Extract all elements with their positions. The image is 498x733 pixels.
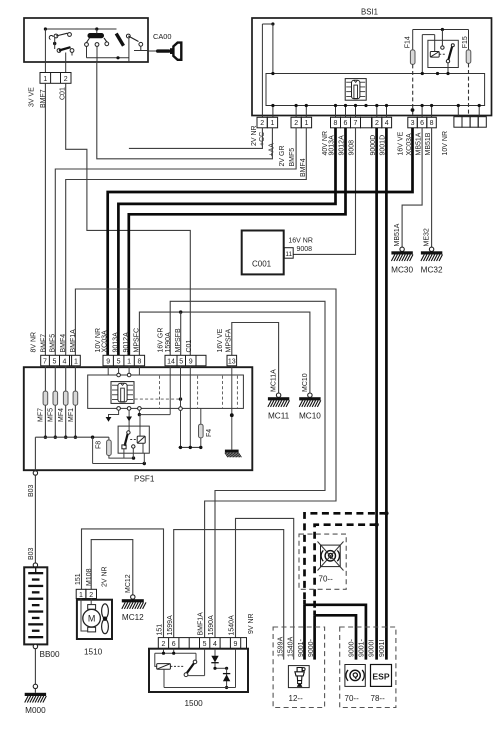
- svg-text:16V NR: 16V NR: [288, 238, 313, 245]
- svg-text:16V VE: 16V VE: [398, 131, 405, 155]
- svg-text:M000: M000: [25, 706, 46, 715]
- svg-text:151: 151: [75, 573, 82, 585]
- svg-text:9001-: 9001-: [298, 638, 305, 657]
- svg-text:1540A: 1540A: [229, 615, 236, 636]
- svg-text:MC12: MC12: [125, 574, 132, 593]
- svg-text:MF1: MF1: [68, 408, 75, 422]
- svg-text:16V GR: 16V GR: [158, 328, 165, 353]
- svg-text:BMF1A: BMF1A: [70, 329, 77, 353]
- svg-text:7: 7: [43, 359, 47, 366]
- svg-text:M: M: [88, 614, 96, 624]
- svg-text:BMF1A: BMF1A: [198, 612, 205, 636]
- svg-text:9001-: 9001-: [359, 638, 366, 657]
- svg-text:2: 2: [375, 120, 379, 127]
- svg-text:8: 8: [334, 120, 338, 127]
- svg-text:ME32: ME32: [424, 228, 431, 246]
- svg-text:F4: F4: [206, 429, 213, 437]
- svg-text:9000I: 9000I: [369, 639, 376, 657]
- svg-text:MC30: MC30: [391, 266, 413, 275]
- svg-text:1: 1: [43, 76, 47, 83]
- svg-text:F14: F14: [405, 36, 412, 48]
- svg-text:MC32: MC32: [421, 266, 443, 275]
- svg-text:4: 4: [385, 120, 389, 127]
- svg-text:1: 1: [304, 120, 308, 127]
- svg-text:151: 151: [157, 624, 164, 636]
- svg-text:16V VE: 16V VE: [217, 328, 224, 352]
- svg-text:BMF7: BMF7: [40, 334, 47, 353]
- svg-text:PSF1: PSF1: [134, 475, 155, 484]
- svg-text:MF7: MF7: [38, 408, 45, 422]
- svg-text:BMF5: BMF5: [50, 334, 57, 353]
- svg-text:1599A: 1599A: [278, 636, 285, 657]
- svg-text:MC10: MC10: [302, 373, 309, 392]
- svg-text:BMF5: BMF5: [289, 148, 296, 167]
- svg-text:BMF7: BMF7: [40, 89, 47, 108]
- svg-text:1590A: 1590A: [208, 615, 215, 636]
- svg-text:3V VE: 3V VE: [29, 87, 36, 107]
- svg-text:1540A: 1540A: [288, 636, 295, 657]
- svg-text:1500: 1500: [185, 699, 204, 708]
- svg-text:11: 11: [285, 251, 292, 258]
- svg-text:2: 2: [162, 641, 166, 648]
- svg-text:MPSFB: MPSFB: [175, 328, 182, 352]
- svg-text:MC12: MC12: [122, 613, 144, 622]
- svg-text:6: 6: [420, 120, 424, 127]
- svg-text:C01: C01: [186, 340, 193, 353]
- svg-text:2V NR: 2V NR: [251, 125, 258, 146]
- svg-text:1590A: 1590A: [165, 332, 172, 353]
- svg-text:8V NR: 8V NR: [31, 332, 38, 353]
- svg-text:9V NR: 9V NR: [248, 613, 255, 634]
- svg-text:5: 5: [52, 359, 56, 366]
- svg-text:12--: 12--: [289, 694, 304, 703]
- svg-text:6: 6: [172, 641, 176, 648]
- svg-text:M108: M108: [86, 568, 93, 586]
- svg-text:1599A: 1599A: [167, 615, 174, 636]
- svg-text:F15: F15: [462, 36, 469, 48]
- svg-text:7: 7: [354, 120, 358, 127]
- svg-text:2V NR: 2V NR: [102, 566, 109, 587]
- svg-text:10V NR: 10V NR: [442, 131, 449, 156]
- svg-text:2: 2: [89, 592, 93, 599]
- svg-text:14: 14: [167, 359, 175, 366]
- svg-text:5: 5: [117, 359, 121, 366]
- svg-text:MC11: MC11: [268, 412, 290, 421]
- svg-text:9012A: 9012A: [123, 332, 130, 353]
- svg-text:2: 2: [294, 120, 298, 127]
- svg-text:78--: 78--: [371, 694, 386, 703]
- svg-text:MF5: MF5: [48, 408, 55, 422]
- svg-text:9: 9: [189, 359, 193, 366]
- svg-text:5: 5: [179, 359, 183, 366]
- svg-text:4: 4: [63, 359, 67, 366]
- svg-text:9000-: 9000-: [348, 638, 355, 657]
- svg-text:2: 2: [64, 76, 68, 83]
- svg-text:70--: 70--: [319, 575, 334, 584]
- svg-text:1510: 1510: [84, 648, 103, 657]
- svg-text:MC10: MC10: [299, 412, 321, 421]
- svg-text:B03: B03: [28, 484, 35, 497]
- svg-text:CA00: CA00: [153, 32, 172, 41]
- svg-text:8: 8: [430, 120, 434, 127]
- svg-text:MPSFA: MPSFA: [226, 328, 233, 352]
- svg-text:C001: C001: [252, 260, 272, 269]
- svg-text:XC03A: XC03A: [102, 330, 109, 353]
- svg-text:F8: F8: [96, 441, 103, 449]
- svg-text:BB00: BB00: [40, 650, 60, 659]
- svg-text:70--: 70--: [345, 694, 360, 703]
- svg-text:MC11A: MC11A: [271, 369, 278, 392]
- svg-text:8: 8: [137, 359, 141, 366]
- svg-text:6: 6: [344, 120, 348, 127]
- svg-text:2V GR: 2V GR: [279, 145, 286, 166]
- svg-text:MB51B: MB51B: [425, 132, 432, 155]
- svg-text:3: 3: [411, 120, 415, 127]
- svg-text:BSI1: BSI1: [361, 8, 378, 17]
- svg-text:MPSFC: MPSFC: [134, 328, 141, 353]
- svg-text:9000-: 9000-: [308, 638, 315, 657]
- svg-text:B03: B03: [28, 547, 35, 560]
- svg-text:4: 4: [213, 641, 217, 648]
- svg-text:MB51A: MB51A: [394, 223, 401, 246]
- svg-text:1: 1: [79, 592, 83, 599]
- svg-text:BMF4: BMF4: [60, 334, 67, 353]
- svg-text:9008: 9008: [297, 246, 313, 253]
- svg-text:1: 1: [270, 120, 274, 127]
- svg-text:9001I: 9001I: [379, 639, 386, 657]
- svg-text:9: 9: [234, 641, 238, 648]
- svg-text:ESP: ESP: [372, 671, 389, 681]
- svg-text:2: 2: [260, 120, 264, 127]
- svg-text:9008: 9008: [349, 140, 356, 156]
- svg-text:9: 9: [106, 359, 110, 366]
- svg-text:5: 5: [203, 641, 207, 648]
- svg-text:13: 13: [228, 359, 236, 366]
- svg-text:MF4: MF4: [58, 408, 65, 422]
- svg-text:9013A: 9013A: [112, 332, 119, 353]
- svg-text:1: 1: [127, 359, 131, 366]
- svg-text:MB51A: MB51A: [415, 132, 422, 155]
- svg-text:1: 1: [74, 359, 78, 366]
